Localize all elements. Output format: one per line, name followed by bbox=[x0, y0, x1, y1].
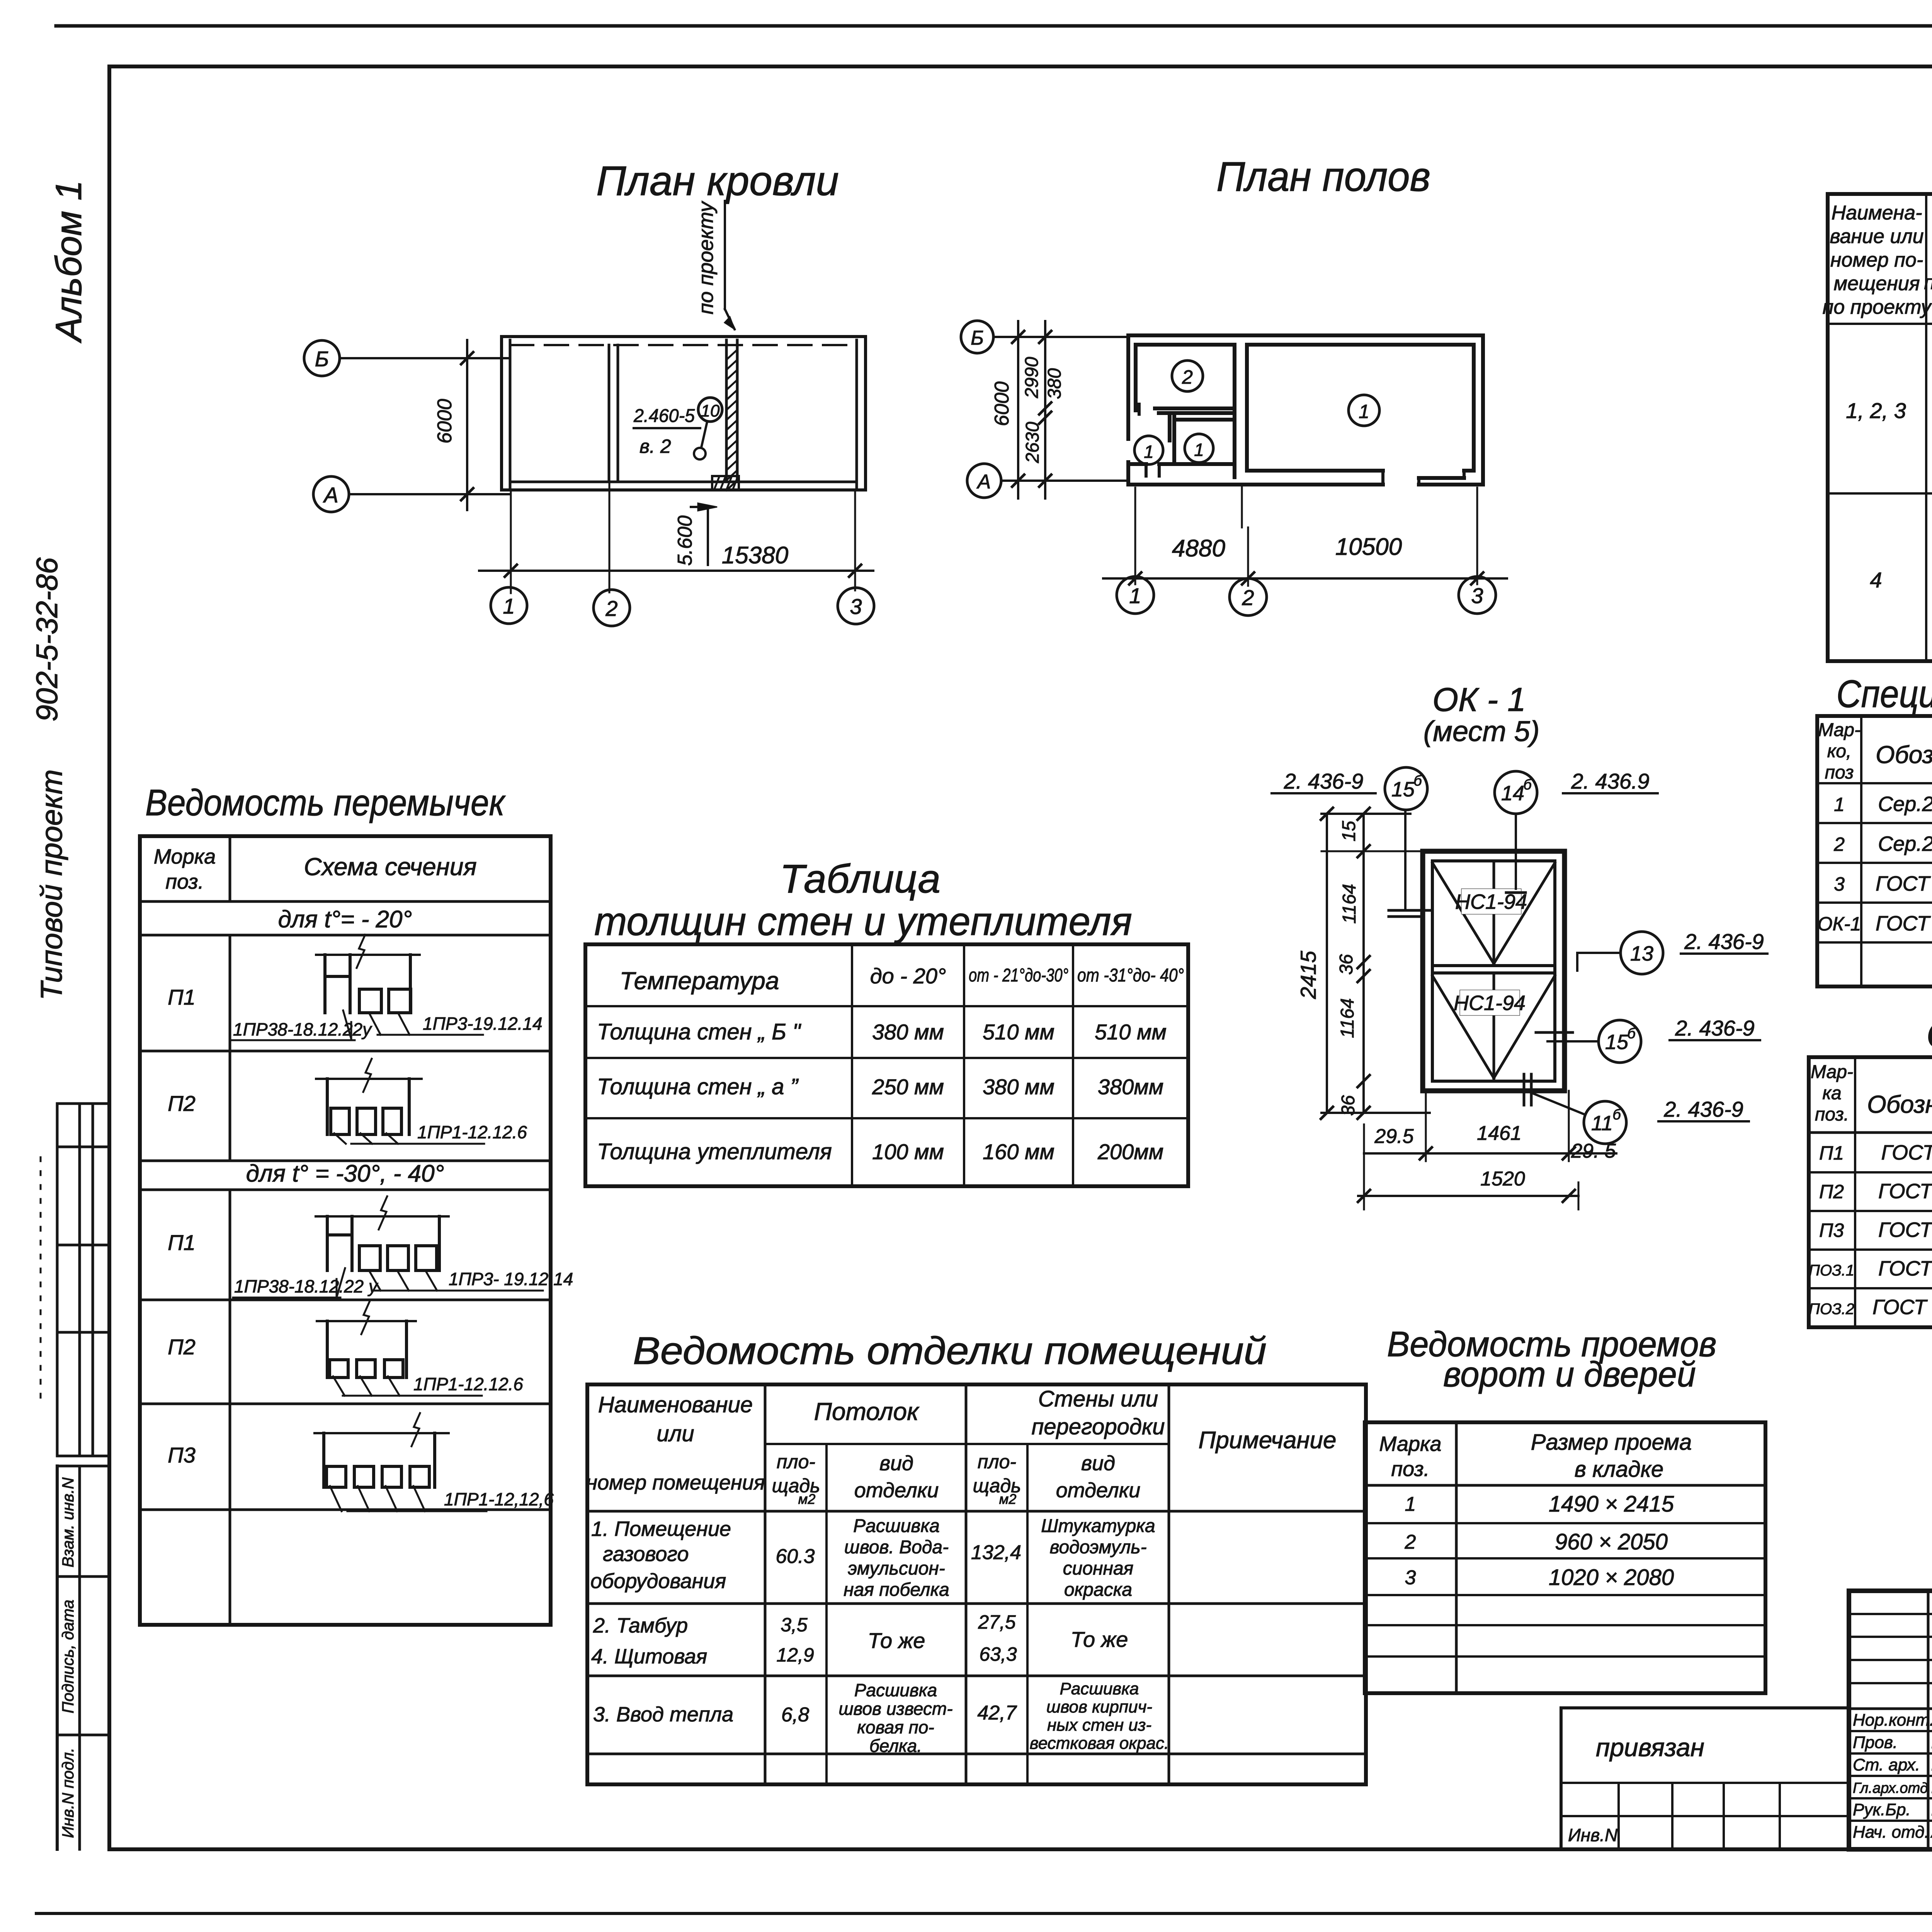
svg-text:Температура: Температура bbox=[620, 967, 779, 995]
svg-text:1ПР1-12,12,6: 1ПР1-12,12,6 bbox=[444, 1489, 554, 1509]
svg-text:Типовой проект: Типовой проект bbox=[34, 769, 68, 1000]
svg-text:швов кирпич-: швов кирпич- bbox=[1046, 1697, 1152, 1716]
svg-text:1164: 1164 bbox=[1337, 998, 1358, 1038]
svg-text:от - 21°до-30°: от - 21°до-30° bbox=[969, 965, 1068, 986]
svg-text:1. Помещение: 1. Помещение bbox=[591, 1517, 731, 1541]
svg-text:Примечание: Примечание bbox=[1198, 1427, 1336, 1454]
svg-text:Размер проема: Размер проема bbox=[1531, 1430, 1692, 1455]
svg-text:13: 13 bbox=[1630, 942, 1653, 965]
svg-text:(мест 5): (мест 5) bbox=[1423, 715, 1540, 747]
svg-text:1: 1 bbox=[1834, 794, 1845, 815]
svg-text:ГОСТ 948 -76: ГОСТ 948 -76 bbox=[1878, 1180, 1932, 1203]
svg-text:по проекту: по проекту bbox=[1823, 296, 1932, 318]
svg-text:Потолок: Потолок bbox=[814, 1398, 920, 1425]
svg-text:5.600: 5.600 bbox=[674, 515, 696, 566]
svg-text:Стены или: Стены или bbox=[1038, 1386, 1158, 1412]
svg-text:3: 3 bbox=[1471, 583, 1483, 608]
svg-text:в кладке: в кладке bbox=[1575, 1457, 1663, 1482]
svg-text:2: 2 bbox=[1405, 1531, 1416, 1553]
svg-text:2: 2 bbox=[605, 596, 617, 621]
svg-text:Ст. арх.: Ст. арх. bbox=[1853, 1755, 1920, 1774]
svg-text:2: 2 bbox=[1242, 585, 1254, 610]
svg-text:м2: м2 bbox=[999, 1491, 1017, 1507]
svg-text:380 мм: 380 мм bbox=[983, 1075, 1054, 1099]
svg-text:15380: 15380 bbox=[722, 542, 788, 569]
svg-text:или: или bbox=[656, 1421, 694, 1446]
svg-text:1461: 1461 bbox=[1477, 1122, 1522, 1145]
svg-text:белка.: белка. bbox=[869, 1736, 922, 1756]
svg-text:План полов: План полов bbox=[1216, 153, 1430, 200]
svg-text:3: 3 bbox=[1834, 873, 1845, 895]
svg-text:1164: 1164 bbox=[1339, 884, 1360, 923]
svg-text:1ПР3-19.12.14: 1ПР3-19.12.14 bbox=[423, 1014, 543, 1034]
svg-text:Схема сечения: Схема сечения bbox=[304, 853, 476, 881]
svg-text:1: 1 bbox=[1144, 442, 1154, 462]
svg-text:П1: П1 bbox=[1819, 1142, 1844, 1164]
svg-text:ворот и дверей: ворот и дверей bbox=[1443, 1355, 1696, 1394]
svg-text:отделки: отделки bbox=[1056, 1479, 1140, 1502]
svg-text:НС1-94: НС1-94 bbox=[1454, 992, 1526, 1015]
svg-text:б: б bbox=[1413, 773, 1422, 789]
svg-text:3: 3 bbox=[850, 594, 862, 619]
svg-text:200мм: 200мм bbox=[1097, 1139, 1163, 1164]
svg-text:швов извест-: швов извест- bbox=[838, 1699, 952, 1719]
svg-text:вание или: вание или bbox=[1830, 225, 1924, 248]
svg-text:То же: То же bbox=[868, 1628, 925, 1653]
svg-text:100 мм: 100 мм bbox=[872, 1139, 944, 1164]
svg-text:А: А bbox=[323, 483, 338, 507]
svg-text:номер помещения: номер помещения bbox=[586, 1471, 765, 1494]
svg-text:1: 1 bbox=[1359, 401, 1369, 422]
svg-text:Толщина утеплителя: Толщина утеплителя bbox=[597, 1139, 832, 1164]
svg-text:привязан: привязан bbox=[1596, 1733, 1704, 1762]
svg-text:4. Щитовая: 4. Щитовая bbox=[591, 1645, 707, 1668]
svg-text:номер по-: номер по- bbox=[1830, 249, 1923, 271]
svg-text:Инв.N подл.: Инв.N подл. bbox=[59, 1748, 77, 1838]
svg-text:Толщина стен „ Б ": Толщина стен „ Б " bbox=[597, 1019, 801, 1044]
svg-text:вид: вид bbox=[879, 1452, 913, 1475]
svg-text:поз.: поз. bbox=[1815, 1104, 1849, 1125]
svg-text:ко,: ко, bbox=[1827, 741, 1852, 762]
svg-text:380 мм: 380 мм bbox=[872, 1020, 944, 1044]
svg-text:толщин стен и утеплителя: толщин стен и утеплителя bbox=[594, 899, 1132, 944]
svg-text:2415: 2415 bbox=[1296, 951, 1320, 999]
svg-text:1ПР38-18.12.22 у: 1ПР38-18.12.22 у bbox=[234, 1276, 379, 1296]
svg-text:Обозначение: Обозначение bbox=[1876, 741, 1932, 769]
svg-text:1ПР3- 19.12.14: 1ПР3- 19.12.14 bbox=[449, 1269, 573, 1289]
svg-text:поз: поз bbox=[1825, 762, 1854, 783]
svg-text:2. 436-9: 2. 436-9 bbox=[1663, 1097, 1743, 1121]
svg-text:510 мм: 510 мм bbox=[983, 1020, 1054, 1044]
svg-text:водоэмуль-: водоэмуль- bbox=[1049, 1537, 1146, 1558]
svg-text:2. 436-9: 2. 436-9 bbox=[1284, 769, 1364, 793]
svg-text:пло-: пло- bbox=[777, 1451, 815, 1473]
svg-text:1: 1 bbox=[503, 594, 515, 618]
svg-text:2.460-5: 2.460-5 bbox=[633, 406, 695, 426]
svg-text:4880: 4880 bbox=[1172, 535, 1225, 562]
svg-text:2990: 2990 bbox=[1022, 357, 1042, 398]
svg-text:902-5-32-86: 902-5-32-86 bbox=[30, 557, 64, 722]
svg-text:15: 15 bbox=[1391, 778, 1415, 801]
svg-text:63,3: 63,3 bbox=[979, 1643, 1017, 1665]
svg-text:60.3: 60.3 bbox=[776, 1545, 815, 1568]
svg-text:окраска: окраска bbox=[1064, 1580, 1132, 1600]
svg-text:1520: 1520 bbox=[1480, 1168, 1525, 1190]
svg-text:2. 436-9: 2. 436-9 bbox=[1684, 929, 1764, 954]
svg-text:ГОСТ 948-76: ГОСТ 948-76 bbox=[1881, 1141, 1932, 1164]
svg-text:ОК-1: ОК-1 bbox=[1818, 913, 1861, 935]
svg-text:сионная: сионная bbox=[1063, 1558, 1134, 1579]
svg-text:Спецификация элементов зап: Спецификация элементов заполнения проемо… bbox=[1837, 672, 1932, 716]
svg-text:в. 2: в. 2 bbox=[639, 435, 671, 457]
svg-text:Мар-: Мар- bbox=[1811, 1062, 1853, 1082]
svg-text:960 × 2050: 960 × 2050 bbox=[1555, 1529, 1668, 1554]
svg-text:ГОСТ 8717- 81: ГОСТ 8717- 81 bbox=[1872, 1296, 1932, 1319]
svg-text:Наимена-: Наимена- bbox=[1832, 202, 1922, 224]
svg-text:ных стен из-: ных стен из- bbox=[1047, 1716, 1151, 1735]
svg-text:по проекту: по проекту bbox=[694, 201, 718, 314]
svg-text:для t°= - 20°: для t°= - 20° bbox=[278, 906, 412, 933]
svg-text:П1: П1 bbox=[168, 1230, 196, 1255]
svg-text:Расшивка: Расшивка bbox=[854, 1680, 937, 1700]
svg-text:1, 2, 3: 1, 2, 3 bbox=[1846, 398, 1906, 423]
svg-text:ПОЗ.1: ПОЗ.1 bbox=[1809, 1262, 1854, 1279]
svg-text:Пров.: Пров. bbox=[1853, 1733, 1898, 1752]
svg-text:до - 20°: до - 20° bbox=[870, 964, 946, 988]
svg-text:П1: П1 bbox=[168, 985, 196, 1009]
svg-text:ГОСТ 948 -76: ГОСТ 948 -76 bbox=[1878, 1218, 1932, 1242]
svg-text:36: 36 bbox=[1338, 1095, 1359, 1116]
svg-text:Рук.Бр.: Рук.Бр. bbox=[1853, 1800, 1911, 1819]
svg-text:1490 × 2415: 1490 × 2415 bbox=[1549, 1492, 1674, 1517]
svg-text:для t° = -30°, - 40°: для t° = -30°, - 40° bbox=[246, 1160, 444, 1187]
svg-text:132,4: 132,4 bbox=[971, 1541, 1021, 1564]
svg-text:Подпись, дата: Подпись, дата bbox=[59, 1600, 77, 1713]
svg-text:2. Тамбур: 2. Тамбур bbox=[593, 1614, 688, 1637]
svg-text:Б: Б bbox=[971, 327, 984, 349]
svg-text:Ведомость отделки помещени: Ведомость отделки помещений bbox=[633, 1329, 1267, 1372]
svg-text:42,7: 42,7 bbox=[977, 1702, 1017, 1724]
svg-text:380мм: 380мм bbox=[1098, 1075, 1163, 1099]
svg-text:П2: П2 bbox=[1819, 1181, 1844, 1202]
svg-text:Расшивка: Расшивка bbox=[853, 1516, 940, 1536]
svg-text:от -31°до- 40°: от -31°до- 40° bbox=[1077, 965, 1184, 986]
svg-text:29.5: 29.5 bbox=[1374, 1125, 1414, 1148]
svg-text:510 мм: 510 мм bbox=[1095, 1020, 1167, 1044]
svg-text:10: 10 bbox=[701, 401, 720, 420]
svg-text:Расшивка: Расшивка bbox=[1060, 1679, 1139, 1698]
svg-text:ГОСТ 14624- 69: ГОСТ 14624- 69 bbox=[1876, 872, 1932, 895]
svg-text:15: 15 bbox=[1339, 821, 1359, 842]
svg-text:Штукатурка: Штукатурка bbox=[1041, 1516, 1155, 1536]
svg-text:160 мм: 160 мм bbox=[983, 1139, 1054, 1164]
svg-text:ная побелка: ная побелка bbox=[844, 1580, 949, 1600]
svg-text:Мар-: Мар- bbox=[1818, 720, 1861, 740]
svg-text:2. 436.9: 2. 436.9 bbox=[1571, 769, 1649, 793]
svg-text:ПОЗ.2: ПОЗ.2 bbox=[1809, 1301, 1854, 1318]
svg-text:250 мм: 250 мм bbox=[872, 1075, 944, 1099]
svg-text:б: б bbox=[1627, 1026, 1636, 1042]
svg-text:Нач. отд.: Нач. отд. bbox=[1853, 1823, 1929, 1842]
svg-text:проек-: проек- bbox=[1924, 271, 1932, 294]
svg-text:15: 15 bbox=[1605, 1031, 1629, 1054]
svg-text:ГОСТ 12506- 67: ГОСТ 12506- 67 bbox=[1876, 912, 1932, 935]
svg-text:Наименование: Наименование bbox=[598, 1392, 753, 1417]
svg-text:3: 3 bbox=[1405, 1566, 1416, 1589]
svg-text:П3: П3 bbox=[168, 1443, 196, 1467]
svg-text:П2: П2 bbox=[168, 1335, 196, 1359]
svg-text:3,5: 3,5 bbox=[781, 1614, 808, 1636]
svg-text:1ПР1-12.12.6: 1ПР1-12.12.6 bbox=[413, 1374, 523, 1394]
svg-text:4: 4 bbox=[1870, 568, 1882, 592]
svg-text:1: 1 bbox=[1194, 440, 1204, 460]
svg-text:Таблица: Таблица bbox=[780, 857, 940, 901]
svg-text:Спецификация перемычек: Спецификация перемычек bbox=[1926, 1013, 1932, 1056]
svg-text:эмульсион-: эмульсион- bbox=[848, 1558, 945, 1579]
svg-text:11: 11 bbox=[1591, 1112, 1613, 1135]
svg-text:Взам. инв.N: Взам. инв.N bbox=[59, 1477, 77, 1568]
svg-text:Сер.2.435-6 в.2: Сер.2.435-6 в.2 bbox=[1878, 793, 1932, 816]
svg-text:6000: 6000 bbox=[434, 399, 456, 444]
svg-text:Альбом 1: Альбом 1 bbox=[48, 180, 89, 344]
svg-text:поз.: поз. bbox=[165, 870, 204, 893]
svg-text:Морка: Морка bbox=[154, 845, 216, 868]
svg-text:м2: м2 bbox=[798, 1491, 816, 1507]
svg-text:36: 36 bbox=[1336, 954, 1357, 975]
svg-text:План кровли: План кровли bbox=[596, 157, 839, 204]
svg-text:2. 436-9: 2. 436-9 bbox=[1675, 1016, 1755, 1040]
svg-text:6,8: 6,8 bbox=[781, 1704, 809, 1726]
svg-text:14: 14 bbox=[1501, 782, 1524, 805]
svg-text:ОК - 1: ОК - 1 bbox=[1432, 681, 1526, 718]
svg-text:оборудования: оборудования bbox=[590, 1570, 726, 1593]
svg-text:вид: вид bbox=[1081, 1452, 1115, 1475]
svg-text:Толщина стен „ а ”: Толщина стен „ а ” bbox=[597, 1074, 799, 1099]
svg-text:1: 1 bbox=[1129, 583, 1141, 608]
svg-text:2630: 2630 bbox=[1022, 422, 1043, 463]
svg-text:3. Ввод тепла: 3. Ввод тепла bbox=[593, 1703, 733, 1726]
svg-text:12,9: 12,9 bbox=[776, 1644, 814, 1666]
svg-text:вестковая окрас.: вестковая окрас. bbox=[1030, 1734, 1169, 1753]
svg-text:Обозначение: Обозначение bbox=[1867, 1090, 1932, 1118]
svg-text:б: б bbox=[1612, 1107, 1621, 1123]
svg-text:А: А bbox=[976, 471, 991, 493]
svg-text:6000: 6000 bbox=[991, 381, 1013, 426]
svg-text:ка: ка bbox=[1822, 1083, 1841, 1104]
svg-text:пло-: пло- bbox=[978, 1451, 1016, 1473]
svg-text:10500: 10500 bbox=[1335, 534, 1402, 560]
svg-text:мещения: мещения bbox=[1833, 272, 1920, 295]
svg-text:Ведомость перемычек: Ведомость перемычек bbox=[145, 782, 506, 823]
svg-text:1020 × 2080: 1020 × 2080 bbox=[1549, 1565, 1674, 1590]
svg-text:Инв.N: Инв.N bbox=[1568, 1825, 1618, 1845]
svg-text:Марка: Марка bbox=[1379, 1432, 1441, 1456]
svg-text:То же: То же bbox=[1071, 1627, 1128, 1651]
svg-text:швов. Вода-: швов. Вода- bbox=[844, 1537, 949, 1558]
svg-text:Сер.2.435-6 в.2: Сер.2.435-6 в.2 bbox=[1878, 832, 1932, 855]
svg-text:ГОСТ 948 -76: ГОСТ 948 -76 bbox=[1878, 1257, 1932, 1280]
svg-text:2: 2 bbox=[1833, 833, 1845, 855]
svg-text:Нор.конт.: Нор.конт. bbox=[1853, 1711, 1932, 1730]
svg-text:поз.: поз. bbox=[1391, 1458, 1429, 1481]
svg-text:ковая по-: ковая по- bbox=[857, 1717, 934, 1737]
svg-text:б: б bbox=[1523, 777, 1532, 793]
svg-text:Гл.арх.отд: Гл.арх.отд bbox=[1853, 1780, 1928, 1796]
svg-text:27,5: 27,5 bbox=[978, 1611, 1016, 1633]
svg-text:1: 1 bbox=[1405, 1493, 1416, 1515]
svg-text:П2: П2 bbox=[168, 1091, 196, 1116]
svg-text:2: 2 bbox=[1182, 366, 1193, 388]
svg-text:отделки: отделки bbox=[854, 1479, 939, 1502]
svg-text:1ПР1-12.12.6: 1ПР1-12.12.6 bbox=[417, 1122, 527, 1142]
svg-text:Б: Б bbox=[315, 347, 329, 371]
svg-text:перегородки: перегородки bbox=[1031, 1414, 1165, 1439]
svg-text:П3: П3 bbox=[1819, 1219, 1844, 1241]
svg-text:газового: газового bbox=[603, 1543, 689, 1566]
svg-text:380: 380 bbox=[1044, 368, 1065, 399]
